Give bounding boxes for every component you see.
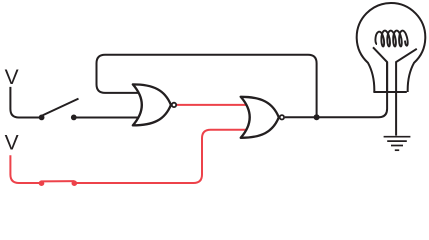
- switch S2 lever (closed): [42, 180, 75, 182]
- switch S2 contact dot right: [72, 180, 78, 186]
- lamp filament support left: [373, 47, 387, 92]
- lamp base line: [373, 91, 406, 93]
- wire U2 output to node Q and lamp: [285, 62, 387, 117]
- lamp DS1 glass envelope: [357, 3, 426, 92]
- svg-text:V: V: [5, 66, 19, 89]
- lamp filament coil: [375, 31, 407, 47]
- wire V2 to switch S2: [10, 155, 41, 183]
- switch S1 contact dot left: [39, 115, 45, 121]
- switch S1 lever (open): [43, 99, 79, 116]
- wire U1 output to U2 input A: [177, 104, 247, 106]
- wire V1 to switch S1: [10, 87, 41, 118]
- lamp filament support right: [396, 49, 417, 92]
- wire S1 to NOR gate U1 input B: [74, 117, 140, 119]
- NOR gate U2: [241, 97, 284, 138]
- svg-text:V: V: [5, 131, 19, 154]
- wire S2 to NOR gate U2 input B: [74, 130, 248, 183]
- ground symbol: [384, 136, 411, 138]
- NOR gate U1: [133, 84, 176, 125]
- switch S1 contact dot right: [71, 115, 77, 121]
- node Q junction dot: [314, 114, 320, 120]
- wire feedback from node Q to U1 input A: [97, 55, 317, 118]
- switch S2 contact dot left: [39, 180, 45, 186]
- wire lamp to ground: [395, 92, 397, 136]
